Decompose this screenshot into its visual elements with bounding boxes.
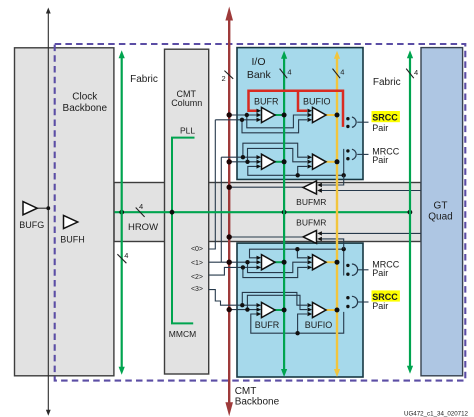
svg-text:BUFIO: BUFIO [303, 97, 331, 107]
svg-text:BUFG: BUFG [19, 220, 44, 230]
svg-text:<0>: <0> [191, 246, 203, 253]
wire BUFMR1 input from GT quad [322, 190, 421, 192]
slash tick and width 4 on right fabric line [406, 68, 418, 78]
svg-text:Backbone: Backbone [235, 397, 280, 408]
wire CMT out 1 stub into lower bank row 3 mid [209, 261, 248, 263]
node red backbone taps [227, 112, 232, 312]
svg-text:BUFMR: BUFMR [296, 217, 326, 227]
MRCC Pair label row3 [372, 260, 399, 278]
node junction dots row1 [240, 113, 249, 122]
I/O Bank lower blue box [237, 243, 363, 377]
slash tick and width 4 on yellow line [333, 68, 345, 79]
CMT Backbone bottom label [235, 386, 280, 407]
I/O Bank upper blue box [237, 48, 363, 180]
svg-text:<1>: <1> [191, 260, 203, 267]
Clock Backbone label [63, 92, 108, 115]
svg-text:SRCC: SRCC [372, 113, 398, 123]
svg-text:HROW: HROW [128, 222, 158, 233]
svg-text:Pair: Pair [372, 155, 388, 165]
wire row2 bottom net from MRCC pads [248, 149, 344, 175]
svg-text:GT: GT [434, 201, 448, 212]
svg-text:Bank: Bank [247, 69, 272, 81]
wire row2 mid net from red backbone [229, 148, 307, 161]
BUFMR buffer U-mr1 [296, 181, 326, 207]
wire row4 mid net from red backbone [229, 295, 307, 309]
svg-text:<2>: <2> [191, 274, 203, 281]
svg-text:2: 2 [222, 74, 226, 83]
SRCC Pair label row4 (yellow highlight) [372, 290, 400, 311]
clock backbone vertical spine wire [46, 8, 51, 416]
yellow vertical clock line in I/O bank [334, 51, 340, 377]
buffer row3 left output to green line [274, 260, 287, 265]
CMT backbone red vertical line [225, 7, 233, 417]
svg-text:Column: Column [171, 98, 202, 108]
SRCC pad pair row4 [346, 296, 368, 308]
svg-text:4: 4 [139, 202, 143, 211]
green vertical clock line in I/O bank [281, 51, 287, 377]
svg-text:PLL: PLL [180, 126, 195, 136]
svg-text:BUFR: BUFR [255, 320, 280, 330]
wire row3 bottom net from CMT out2 [243, 267, 307, 277]
svg-text:<3>: <3> [191, 286, 203, 293]
buffer row3 right [308, 255, 327, 270]
svg-text:I/O: I/O [251, 56, 265, 68]
svg-text:4: 4 [340, 68, 344, 77]
slash tick and width 4 on bank green line [280, 68, 292, 79]
GT Quad label [428, 201, 452, 223]
CMT Column label [171, 89, 202, 108]
wire row1 mid net from red backbone to BUFR and BUFIO [229, 115, 307, 128]
wire row3 mid net continuation to BUFR/BUFIO [248, 262, 308, 272]
CMT green routing path PLL to MMCM [172, 138, 195, 324]
buffer row3 left [257, 255, 276, 270]
wire row4 bottom net from SRCC pads [251, 312, 344, 333]
svg-text:4: 4 [124, 251, 128, 260]
clock backbone column box (left gray box) [15, 48, 114, 376]
wire CMT out 3 jog into row 4 top [209, 290, 242, 306]
BUFG buffer [19, 202, 50, 231]
SRCC pad pair row1 [346, 117, 368, 128]
svg-text:BUFH: BUFH [60, 234, 84, 244]
wire row2 top net from CMT out1 riser [221, 143, 307, 157]
svg-text:4: 4 [414, 68, 418, 77]
BUFIO buffer row1 [303, 97, 331, 123]
svg-text:MMCM: MMCM [169, 329, 196, 339]
svg-text:BUFIO: BUFIO [305, 320, 333, 330]
svg-text:Backbone: Backbone [63, 103, 108, 114]
I/O Bank label [247, 56, 272, 81]
BUFIO buffer row4 output to yellow line [325, 308, 340, 313]
svg-text:CMT: CMT [235, 386, 257, 397]
green fabric vertical line right [407, 50, 413, 374]
MRCC pad pair row2 [346, 149, 368, 160]
wire riser from out 1 up to row 2 [220, 157, 222, 262]
wire BUFMR2 output to red backbone [229, 236, 303, 238]
HROW / BUFMR horizontal band [114, 183, 421, 242]
wire row1 bottom net from CMT out0 to BUFR and BUFIO [215, 120, 307, 133]
wire BUFMR2 input from MRCC net below [322, 239, 344, 249]
green fabric vertical line left [119, 50, 125, 375]
buffer row2 right output to yellow line [325, 159, 340, 164]
CMT output labels 0-3 [191, 246, 203, 293]
BUFR buffer row1 [254, 97, 279, 123]
wire CMT out 2 jog into row 3 bottom [209, 267, 243, 275]
node junction dots row4 [240, 303, 300, 335]
node junction dots row3 [241, 247, 346, 270]
svg-text:4: 4 [287, 68, 291, 77]
PLL label and green stub [180, 126, 195, 136]
BUFR buffer row1 output to green line [274, 113, 287, 118]
slash tick and width 2 on red line [222, 71, 234, 84]
MMCM label [169, 329, 196, 339]
slash tick and width 4 on HROW line [136, 202, 145, 217]
green HROW horizontal clock line [115, 210, 413, 215]
wire BUFMR1 input from MRCC net [322, 175, 344, 185]
purple dashed CMT backbone region border [55, 44, 466, 381]
BUFR buffer row4 [255, 302, 280, 329]
wire row4 top net from CMT out3 [242, 292, 307, 305]
wire row3 top net from MRCC pads [250, 249, 344, 275]
SRCC Pair label row1 (yellow highlight) [372, 111, 400, 133]
slash tick and width 4 on left fabric line [117, 251, 128, 263]
BUFIO buffer row1 output to yellow line [325, 113, 340, 118]
svg-text:BUFMR: BUFMR [296, 197, 326, 207]
buffer row2 right [308, 154, 327, 169]
CMT column box [165, 49, 209, 374]
svg-text:Clock: Clock [72, 92, 98, 103]
svg-text:Fabric: Fabric [130, 74, 158, 85]
wire CMT out 0 stub and riser to top row [209, 120, 215, 249]
wire BUFMR2 input from GT quad [322, 232, 421, 234]
BUFIO buffer row4 [305, 302, 333, 329]
BUFR buffer row4 output to green line [274, 308, 287, 313]
svg-text:Pair: Pair [372, 301, 388, 311]
MRCC pad pair row3 [346, 264, 368, 276]
buffer row3 right output to yellow line [325, 260, 340, 265]
MRCC Pair label row2 [372, 146, 399, 164]
svg-text:Pair: Pair [372, 123, 388, 133]
buffer row2 left output to green line [274, 159, 287, 164]
svg-text:Fabric: Fabric [373, 77, 401, 88]
GT Quad box [421, 48, 463, 376]
node junction dots row2 [241, 155, 346, 178]
wire BUFMR1 output to red backbone [229, 186, 303, 188]
BUFMR buffer U-mr2 [296, 217, 326, 243]
svg-text:Pair: Pair [372, 268, 388, 278]
red highlighted route from SRCC pads to BUFR/BUFIO [249, 91, 344, 127]
svg-text:BUFR: BUFR [254, 97, 279, 107]
buffer row2 left [257, 154, 276, 169]
svg-text:Quad: Quad [428, 212, 452, 223]
BUFH buffer [60, 215, 84, 244]
svg-text:UG472_c1_34_020712: UG472_c1_34_020712 [404, 411, 469, 417]
